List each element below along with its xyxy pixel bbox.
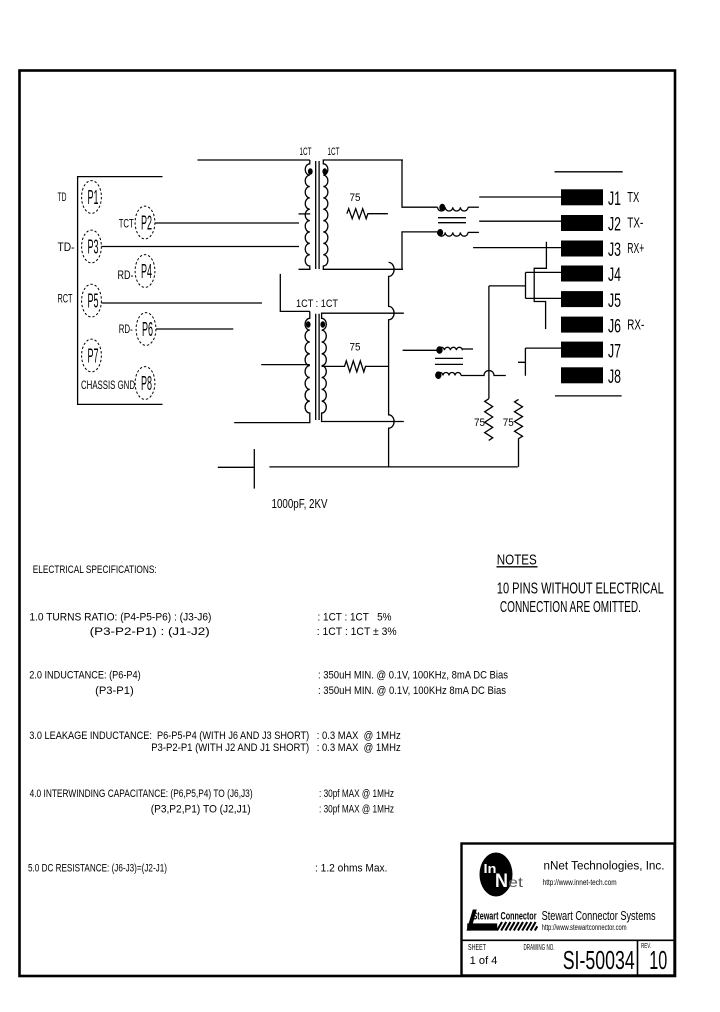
wire to J7 <box>525 347 561 349</box>
svg-text:3.0 LEAKAGE INDUCTANCE: P6-P5: 3.0 LEAKAGE INDUCTANCE: P6-P5-P4 (WITH J… <box>29 730 309 742</box>
svg-text:J8: J8 <box>608 367 621 388</box>
choke L2 core <box>435 358 463 364</box>
wire to J4 <box>526 271 562 273</box>
svg-text:P8: P8 <box>141 373 152 395</box>
svg-text:TX-: TX- <box>627 215 643 232</box>
transformer T1 secondary winding <box>323 160 403 269</box>
connector bracket bottom line <box>555 395 622 397</box>
resistor R4 75 ohm label <box>503 417 514 429</box>
svg-text:P6: P6 <box>142 319 153 341</box>
svg-text:Stewart Connector Systems: Stewart Connector Systems <box>542 909 656 923</box>
title block frame <box>462 844 675 976</box>
svg-text:75: 75 <box>503 417 514 429</box>
svg-text:5.0 DC RESISTANCE: (J6-J3)=(J2: 5.0 DC RESISTANCE: (J6-J3)=(J2-J1) <box>28 863 167 875</box>
T2 primary phase dot <box>306 321 311 327</box>
pin P3 <box>82 230 102 263</box>
label TD <box>58 190 67 204</box>
svg-text:RX-: RX- <box>627 316 644 333</box>
svg-text:: 30pf MAX @ 1MHz: : 30pf MAX @ 1MHz <box>319 804 394 816</box>
InNet logo <box>480 853 524 897</box>
choke L1 core <box>438 218 466 223</box>
transformer T1 label 1CT right <box>328 146 340 158</box>
svg-text:NOTES: NOTES <box>497 553 537 569</box>
svg-text:ELECTRICAL SPECIFICATIONS:: ELECTRICAL SPECIFICATIONS: <box>33 564 157 576</box>
transformer T2 label 1CT : 1CT <box>296 298 338 310</box>
svg-text:75: 75 <box>350 342 361 354</box>
label RX- <box>627 316 644 333</box>
svg-text:75: 75 <box>474 417 485 429</box>
svg-text:Stewart Connector: Stewart Connector <box>473 911 537 923</box>
wire P3 to T1 primary bottom area <box>102 246 300 248</box>
svg-text:: 1.2 ohms Max.: : 1.2 ohms Max. <box>315 863 388 875</box>
label RD- (P6) <box>119 322 133 336</box>
svg-text:J4: J4 <box>608 265 621 286</box>
svg-text:TD: TD <box>58 190 67 204</box>
svg-text:P4: P4 <box>141 261 152 283</box>
NOTES heading <box>497 553 538 569</box>
svg-text:10: 10 <box>649 945 667 975</box>
choke L1 bottom winding <box>437 229 479 236</box>
svg-text:(P3-P2-P1) : (J1-J2): (P3-P2-P1) : (J1-J2) <box>90 626 210 638</box>
svg-text:SI-50034: SI-50034 <box>563 945 635 975</box>
svg-text:75: 75 <box>350 192 361 204</box>
svg-text:: 1CT : 1CT 5%: : 1CT : 1CT 5% <box>318 612 392 624</box>
svg-text:et: et <box>508 874 523 890</box>
spec row 2.0 inductance <box>29 670 508 698</box>
label TD- <box>58 240 75 254</box>
svg-text:nNet Technologies, Inc.: nNet Technologies, Inc. <box>544 861 665 873</box>
capacitor C1 lead <box>218 466 255 468</box>
J3-J6 crossover: vertical stub at J3 <box>534 242 546 329</box>
svg-text:P1: P1 <box>88 187 99 209</box>
svg-text:RD-: RD- <box>119 322 133 336</box>
svg-text:CONNECTION ARE OMITTED.: CONNECTION ARE OMITTED. <box>500 599 641 616</box>
svg-text:J6: J6 <box>608 316 621 337</box>
svg-text:J1: J1 <box>608 189 621 210</box>
svg-text:10 PINS WITHOUT ELECTRICAL: 10 PINS WITHOUT ELECTRICAL <box>497 581 664 598</box>
bottom common wire <box>269 466 517 468</box>
T1 primary phase dot <box>308 168 313 174</box>
rev label <box>641 943 667 975</box>
connector pin J1 <box>561 189 621 210</box>
choke L2 top winding <box>403 346 473 354</box>
svg-text:TD-: TD- <box>58 240 75 254</box>
label CHASSIS GND <box>81 378 135 392</box>
wire T1 primary center tap stub <box>299 213 311 215</box>
resistor R1 zigzag <box>347 209 388 219</box>
wire node to J4/J5 join <box>489 285 526 287</box>
pin P5 <box>82 284 102 317</box>
wire to J3 <box>473 247 561 249</box>
wire T2 center tap left <box>261 364 310 366</box>
wire T1 secondary bottom loop to choke L1 <box>402 232 438 269</box>
svg-text:J5: J5 <box>608 291 621 312</box>
svg-text:P7: P7 <box>88 346 99 368</box>
connector pin J4 <box>561 265 621 286</box>
connector pin J5 <box>561 291 621 312</box>
svg-text:DRAWING NO.: DRAWING NO. <box>524 943 555 952</box>
svg-text:J7: J7 <box>608 341 621 362</box>
capacitor C1 label 1000pF 2KV <box>272 496 328 511</box>
pin P6 <box>136 313 156 346</box>
spec row 3.0 leakage inductance <box>29 730 401 754</box>
svg-text:1CT: 1CT <box>300 146 312 158</box>
resistor R2 zigzag <box>322 361 389 372</box>
svg-text:: 350uH MIN. @ 0.1V, 100KHz 8m: : 350uH MIN. @ 0.1V, 100KHz 8mA DC Bias <box>318 685 506 697</box>
svg-text:RX+: RX+ <box>627 240 644 257</box>
svg-text:: 1CT : 1CT ± 3%: : 1CT : 1CT ± 3% <box>317 626 397 638</box>
transformer T2 primary winding <box>234 311 310 422</box>
T2 secondary phase dot <box>320 321 325 327</box>
drawing number label <box>524 943 635 975</box>
wire entry to T2 top left <box>280 274 310 312</box>
svg-text:CHASSIS GND: CHASSIS GND <box>81 378 135 392</box>
resistor R3 75 ohm label <box>474 417 485 429</box>
wire P5 (RCT) <box>102 302 263 304</box>
connector pin J6 <box>561 316 621 337</box>
spec row 5.0 dc resistance <box>28 863 388 875</box>
svg-text:: 350uH MIN. @ 0.1V, 100KHz, 8: : 350uH MIN. @ 0.1V, 100KHz, 8mA DC Bias <box>318 670 508 682</box>
svg-text:1.0 TURNS RATIO: (P4-P5-P6) :: 1.0 TURNS RATIO: (P4-P5-P6) : (J3-J6) <box>29 612 211 624</box>
T1 secondary phase dot <box>322 168 327 174</box>
svg-text:P3: P3 <box>88 237 99 259</box>
svg-text:http://www.innet-tech.com: http://www.innet-tech.com <box>543 878 617 887</box>
wire P2 to T1 center tap area <box>155 222 299 224</box>
svg-text:RCT: RCT <box>58 292 73 306</box>
svg-text:1 of 4: 1 of 4 <box>470 955 498 967</box>
ELECTRICAL SPECIFICATIONS text block <box>33 564 157 576</box>
label RD- (P4) <box>118 268 134 282</box>
transformer T2 secondary winding <box>322 313 404 421</box>
label TCT <box>119 217 134 231</box>
Stewart Connector Systems text <box>542 909 656 932</box>
resistor R1 75 ohm label <box>350 192 361 204</box>
pin header box (P side) <box>78 177 163 405</box>
transformer T1 core <box>316 161 319 269</box>
pin P4 <box>135 255 155 288</box>
svg-text:P5: P5 <box>88 291 99 313</box>
connector pin J8 <box>561 367 621 388</box>
svg-text:http://www.stewartconnector.co: http://www.stewartconnector.com <box>542 923 627 932</box>
note text <box>497 581 664 617</box>
wire to J1 <box>479 196 561 198</box>
wire P6 <box>156 328 233 330</box>
capacitor C1 plate <box>253 449 255 489</box>
connector pin J3 <box>561 240 621 261</box>
svg-text:RD-: RD- <box>118 268 134 282</box>
wire to J2 <box>479 220 561 222</box>
svg-text:N: N <box>495 871 508 892</box>
spec row 1.0 turns ratio <box>29 612 397 639</box>
resistor R4 zigzag <box>515 399 523 467</box>
svg-text:TCT: TCT <box>119 217 134 231</box>
connector pin J2 <box>561 215 621 236</box>
svg-text:TX: TX <box>627 189 639 206</box>
wire node A to T1 primary top <box>198 159 310 161</box>
vertical joining J4/J5 <box>525 272 527 298</box>
wire to J5 <box>526 297 562 299</box>
svg-text:(P3,P2,P1) TO (J2,J1): (P3,P2,P1) TO (J2,J1) <box>151 804 251 816</box>
vertical stub below J7 <box>518 348 525 376</box>
label RCT <box>58 292 73 306</box>
svg-text:: 0.3 MAX @ 1MHz: : 0.3 MAX @ 1MHz <box>317 742 401 754</box>
transformer T1 primary winding <box>299 160 310 269</box>
choke L2 bottom winding <box>435 371 506 380</box>
svg-text:SHEET: SHEET <box>468 943 486 952</box>
nNet Technologies text <box>543 861 665 888</box>
svg-text:P2: P2 <box>141 213 152 235</box>
svg-text:J3: J3 <box>608 240 621 261</box>
pin P1 <box>82 181 102 214</box>
svg-text:1000pF, 2KV: 1000pF, 2KV <box>272 496 328 511</box>
resistor R2 75 ohm label <box>350 342 361 354</box>
vertical down to resistor R3 <box>488 286 490 399</box>
spec row 4.0 interwinding capacitance <box>30 788 394 816</box>
choke L1 top winding <box>438 204 479 211</box>
svg-text:J2: J2 <box>608 215 621 236</box>
transformer T1 label 1CT left <box>300 146 312 158</box>
vertical bus wire with hops <box>389 262 395 466</box>
svg-text:4.0 INTERWINDING CAPACITANCE:: 4.0 INTERWINDING CAPACITANCE: (P6,P5,P4)… <box>30 788 253 800</box>
connector pin J7 <box>561 341 621 362</box>
svg-text:P3-P2-P1 (WITH J2 AND J1 SHORT: P3-P2-P1 (WITH J2 AND J1 SHORT) <box>151 742 309 754</box>
svg-text:: 0.3 MAX @ 1MHz: : 0.3 MAX @ 1MHz <box>317 730 401 742</box>
pin P7 <box>82 339 102 372</box>
svg-text:1CT: 1CT <box>328 146 340 158</box>
label RX+ <box>627 240 644 257</box>
svg-text:(P3-P1): (P3-P1) <box>95 685 134 697</box>
resistor R3 zigzag <box>485 399 493 441</box>
svg-text:2.0 INDUCTANCE: (P6-P4): 2.0 INDUCTANCE: (P6-P4) <box>29 670 141 682</box>
label TX <box>627 189 639 206</box>
label TX- <box>627 215 643 232</box>
Stewart Connector logo <box>467 910 538 931</box>
svg-text:: 30pf MAX @ 1MHz: : 30pf MAX @ 1MHz <box>319 788 394 800</box>
connector bracket top line <box>555 171 623 173</box>
pin P8 <box>135 367 155 400</box>
transformer T2 core <box>316 314 319 420</box>
pin P2 <box>135 206 155 239</box>
wire T1 secondary top loop to choke L1 <box>402 160 438 208</box>
svg-text:1CT : 1CT: 1CT : 1CT <box>296 298 338 310</box>
sheet label <box>468 943 497 967</box>
